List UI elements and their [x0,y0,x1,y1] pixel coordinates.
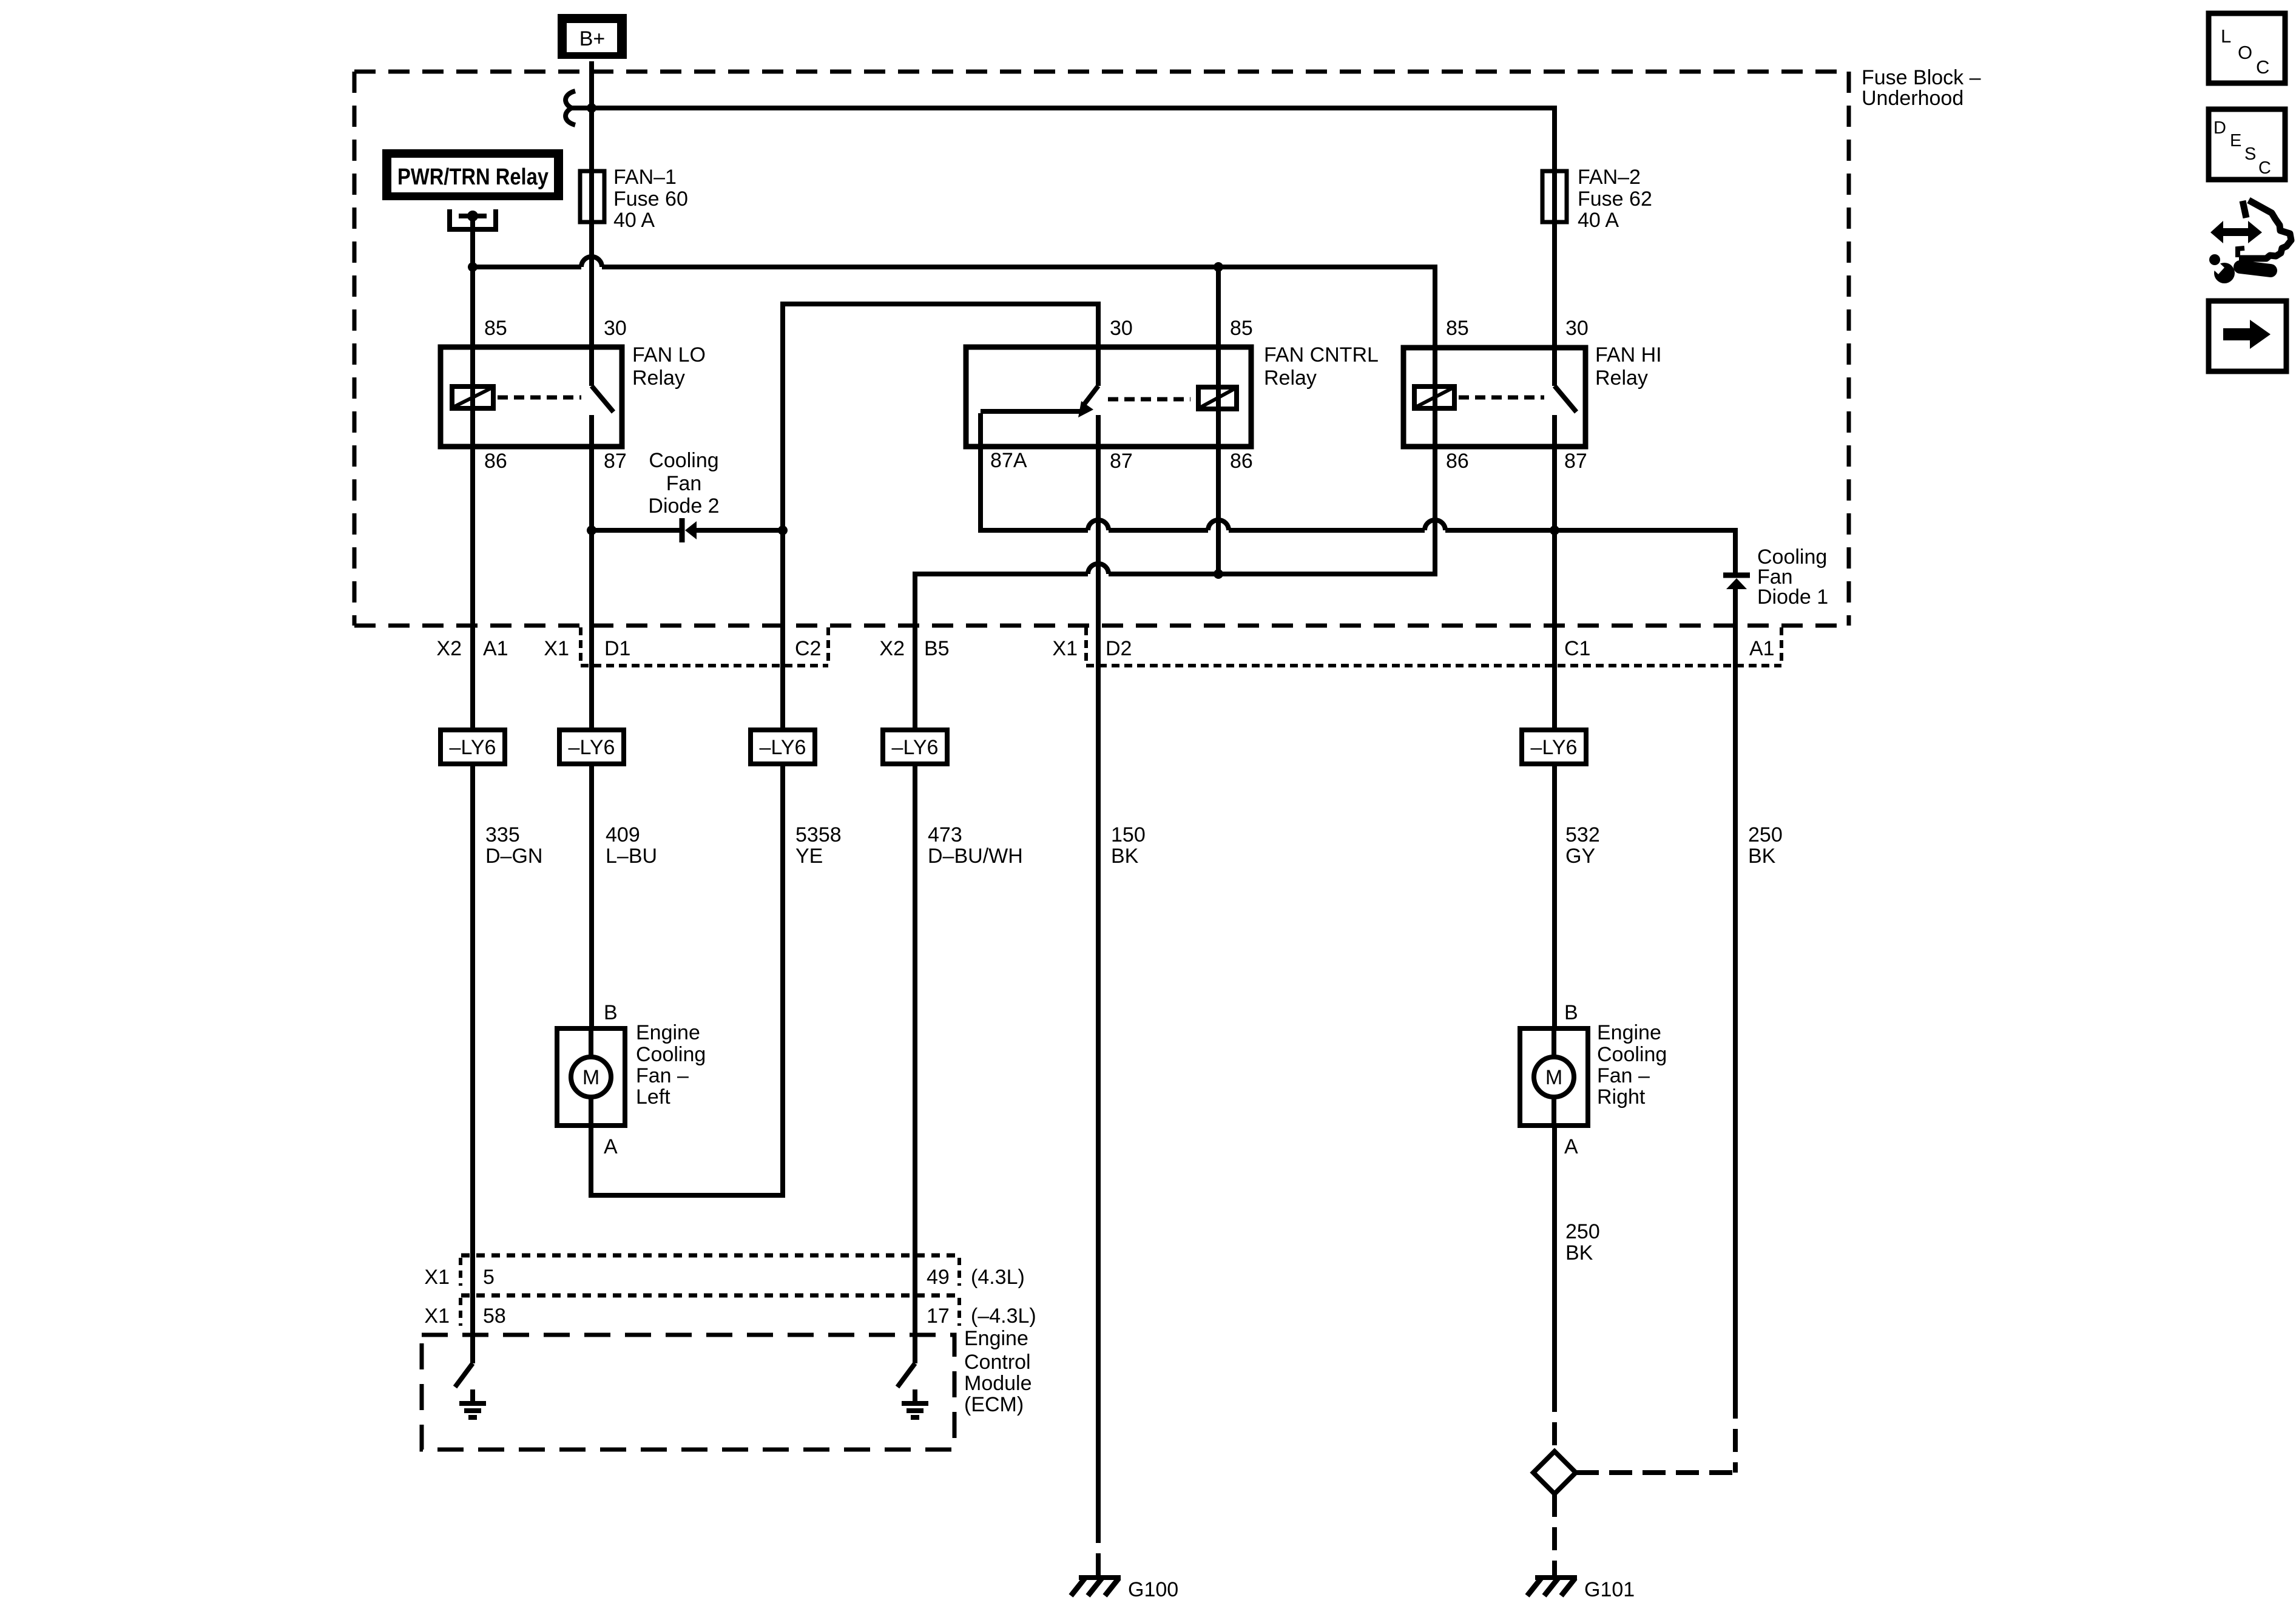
svg-text:FAN CNTRL: FAN CNTRL [1264,343,1379,366]
wire hop over FAN-1 wire [581,257,602,267]
svg-text:Fan: Fan [666,472,702,495]
wire dashed 250 BK to splice diamond [1552,1389,1557,1451]
svg-text:D2: D2 [1106,637,1132,660]
svg-text:(4.3L): (4.3L) [971,1266,1025,1289]
ground symbol in ECM left [459,1403,486,1417]
ground symbol in ECM right [902,1403,928,1417]
svg-text:D1: D1 [604,637,630,660]
ECM connector separator row1 right [957,1258,961,1286]
relay switch arm FAN HI (30-87) [1555,386,1576,447]
ECM connector row X1 pins 5/49 dashed line [461,1254,956,1258]
ground G100 symbol [1071,1578,1121,1596]
svg-text:Engine: Engine [1597,1021,1661,1044]
svg-text:X1: X1 [424,1266,450,1289]
svg-text:Relay: Relay [1595,366,1648,390]
svg-text:58: 58 [483,1305,506,1328]
svg-text:D: D [2213,118,2226,138]
svg-text:5358: 5358 [795,823,842,846]
svg-text:Left: Left [636,1085,670,1109]
fuse block underhood top border [354,70,1849,74]
svg-text:Control: Control [964,1351,1031,1374]
svg-text:A1: A1 [1749,637,1775,660]
wire dashed 250 BK to splice diamond [1576,1470,1735,1475]
splice diamond connector on 250 BK [1533,1451,1576,1494]
motor engine cooling fan - right [1520,1028,1588,1126]
svg-text:G101: G101 [1584,1578,1635,1601]
relay box FAN HI Relay [1403,348,1585,447]
wire right fan motor pin A down (circuit 250 BK) [1552,1126,1557,1389]
option code box -LY6 on circuit 5358 [751,730,815,764]
junction node 5358 wire / diode 2 [778,525,788,535]
junction node coil feed FAN CNTRL 85 [1214,262,1223,272]
wire stub hook (feed continues symbol) at left end of B+ bus [566,91,575,125]
svg-text:D–BU/WH: D–BU/WH [928,845,1023,868]
junction node FAN CNTRL 86 / coil control bus [1214,569,1223,579]
relay box FAN CNTRL Relay [966,347,1251,447]
svg-text:–LY6: –LY6 [892,736,939,759]
svg-text:Right: Right [1597,1085,1646,1109]
svg-text:30: 30 [1565,317,1589,340]
svg-text:L: L [2221,25,2231,47]
relay switch arm FAN LO (30-87) [592,386,613,447]
svg-text:Relay: Relay [1264,366,1317,390]
svg-text:532: 532 [1565,823,1600,846]
svg-text:X2: X2 [436,637,462,660]
option code box -LY6 on circuit 473 [883,730,947,764]
PWR/TRN relay output contact symbol [450,209,496,229]
wire dashed to ground G100 [1096,1520,1101,1580]
wire PWR/TRN relay output down through FAN LO coil 85-86 to ECM pin 5/58 (circuit 335) [470,216,475,1363]
relay actuating dashed link FAN CNTRL [1108,397,1190,402]
svg-text:A1: A1 [483,637,508,660]
fuse FAN-2 Fuse 62 40 A [1542,171,1567,222]
svg-text:Engine: Engine [964,1327,1028,1350]
svg-text:409: 409 [606,823,640,846]
svg-text:87: 87 [1564,450,1587,473]
svg-text:30: 30 [604,317,627,340]
wire B+ bus to FAN-2 fuse and down to FAN HI 30 [568,108,1555,386]
cooling fan diode 2 symbol (cathode bar and arrow pointing left) [682,518,697,542]
svg-text:B: B [1564,1001,1578,1024]
wire FAN CNTRL pin 87 down to ground G100 (circuit 150 BK) [1096,415,1101,1520]
ECM connector separator row2 left [459,1298,462,1326]
svg-text:BK: BK [1748,845,1776,868]
ground G101 symbol [1527,1578,1577,1596]
connector dashed separator X1 left of D2 [1084,627,1088,666]
svg-text:–LY6: –LY6 [569,736,615,759]
wire hop over FAN CNTRL 87 wire [1088,520,1109,530]
svg-text:FAN–1: FAN–1 [613,166,677,189]
svg-text:–LY6: –LY6 [760,736,806,759]
svg-text:A: A [604,1135,618,1158]
junction node PWR/TRN output [468,262,478,272]
relay actuating dashed link FAN HI [1459,396,1544,400]
connector dashed box bottom D1-C2 [581,664,828,667]
svg-text:250: 250 [1565,1220,1600,1243]
ECM connector separator row1 left [459,1258,462,1286]
svg-text:Fan –: Fan – [636,1064,689,1087]
svg-text:G100: G100 [1128,1578,1178,1601]
wire hop over FAN CNTRL 86 wire [1208,520,1229,530]
svg-text:FAN–2: FAN–2 [1578,166,1641,189]
svg-text:17: 17 [927,1305,950,1328]
svg-text:Underhood: Underhood [1862,87,1963,110]
wire 87A bus segment 2 [1109,528,1208,533]
svg-text:S: S [2244,144,2256,164]
svg-text:Cooling: Cooling [636,1043,706,1066]
svg-text:87: 87 [604,450,627,473]
svg-text:GY: GY [1565,845,1595,868]
wire diode 2 bus right segment [695,528,783,533]
svg-text:Diode 1: Diode 1 [1757,586,1828,609]
svg-text:Fuse Block –: Fuse Block – [1862,66,1981,89]
svg-text:473: 473 [928,823,962,846]
svg-text:(ECM): (ECM) [964,1393,1024,1416]
option code box -LY6 on circuit 335 [441,730,505,764]
svg-text:85: 85 [484,317,507,340]
svg-text:Fuse 60: Fuse 60 [613,187,688,211]
junction node B+ bus / FAN-1 fuse feed [587,103,596,113]
svg-text:M: M [582,1066,599,1089]
icon wrench [2207,254,2271,283]
connector dashed separator X1 left of D1 [579,627,582,666]
relay switch arm FAN CNTRL (30-87A normally closed) [981,386,1098,447]
fuse FAN-1 Fuse 60 40 A [580,171,604,222]
svg-text:X1: X1 [544,637,569,660]
wire FAN CNTRL relay pin 85 down through coil to pin 86 and node [1216,267,1221,574]
wire dashed to ground G101 [1552,1494,1557,1580]
wire PWR/TRN feed to relay coils, left part [473,265,581,269]
svg-text:M: M [1545,1066,1562,1089]
svg-text:C: C [2258,158,2271,178]
svg-text:X1: X1 [424,1305,450,1328]
svg-text:87: 87 [1110,450,1133,473]
svg-text:X2: X2 [879,637,905,660]
svg-text:PWR/TRN Relay: PWR/TRN Relay [397,164,549,190]
fuse block underhood left border [353,72,357,626]
wire 87A bus segment 4 to cooling fan diode 1 [1445,530,1735,573]
svg-text:BK: BK [1565,1241,1593,1264]
junction node FAN LO 87 / diode 2 [587,525,596,535]
wire dashed 250 BK down from A1 [1733,1396,1738,1473]
icon box DESC [2209,109,2285,180]
wire hop over FAN HI 86 wire [1425,520,1445,530]
fuse block underhood right border [1847,72,1851,626]
wire 87A bus segment 3 [1229,528,1425,533]
svg-text:Fuse 62: Fuse 62 [1578,187,1652,211]
svg-text:87A: 87A [990,449,1027,472]
svg-text:A: A [1564,1135,1578,1158]
svg-text:85: 85 [1446,317,1469,340]
wire 5358 YE: FAN CNTRL pin 30 feed over and down to left fan motor pin A [591,304,1098,1195]
power feed symbol B+ [558,14,627,59]
wire 87A bus from FAN CNTRL down and right [981,413,1088,530]
svg-text:Cooling: Cooling [649,449,718,472]
svg-text:Cooling: Cooling [1597,1043,1667,1066]
svg-text:49: 49 [927,1266,950,1289]
relay coil FAN HI (85-86) [1414,387,1454,408]
component label box PWR/TRN Relay [382,149,563,200]
switch low side driver in ECM pin 49/17 [897,1363,915,1403]
cooling fan diode 1 symbol (cathode bar, arrow pointing up) [1723,575,1750,589]
svg-text:B+: B+ [579,27,606,50]
svg-text:40 A: 40 A [613,209,655,232]
icon box LOC [2209,13,2285,83]
svg-text:86: 86 [484,450,507,473]
ECM connector separator row2 right [957,1298,961,1326]
svg-text:YE: YE [795,845,823,868]
svg-text:C2: C2 [795,637,821,660]
option code box -LY6 on circuit 409 [559,730,624,764]
icon forward arrow [2223,320,2271,349]
svg-text:250: 250 [1748,823,1783,846]
option code box -LY6 on circuit 532 [1522,730,1586,764]
wire PWR/TRN feed right segment, down through FAN HI coil 85-86 to coil control bus [602,267,1435,574]
svg-text:–LY6: –LY6 [450,736,496,759]
junction node FAN HI 87 / 87A bus [1550,525,1559,535]
svg-text:BK: BK [1111,845,1139,868]
svg-text:C1: C1 [1564,637,1590,660]
relay box FAN LO Relay [441,347,622,447]
svg-text:Fan –: Fan – [1597,1064,1650,1087]
svg-text:E: E [2230,131,2241,150]
svg-text:C: C [2256,56,2269,78]
wire FAN LO relay pin 87 down to left fan motor pin B (circuit 409) [589,415,594,1028]
relay coil FAN CNTRL (85-86) [1198,387,1237,409]
wire coil control bus left segment down to ECM pin 49/17 [915,574,1088,1363]
svg-text:FAN LO: FAN LO [632,343,706,366]
connector dashed box bottom D2-C1-A1 [1086,664,1781,667]
svg-text:150: 150 [1111,823,1146,846]
svg-text:86: 86 [1230,450,1253,473]
switch low side driver in ECM pin 5/58 [455,1363,473,1403]
fuse block underhood bottom border / connector row [354,624,1849,628]
svg-text:(–4.3L): (–4.3L) [971,1305,1036,1328]
ECM connector row X1 pins 58/17 dashed line [461,1294,956,1298]
svg-text:Relay: Relay [632,366,685,390]
module box Engine Control Module ECM [422,1335,954,1450]
svg-text:D–GN: D–GN [485,845,542,868]
connector dashed separator right of C2 [826,627,830,666]
svg-text:Diode 2: Diode 2 [648,495,719,518]
svg-text:335: 335 [485,823,520,846]
svg-text:–LY6: –LY6 [1531,736,1578,759]
wire B+ feed down through FAN-1 fuse to FAN LO relay pin 30 [589,61,594,386]
relay coil FAN LO (85-86) [452,387,493,408]
svg-text:85: 85 [1230,317,1253,340]
relay actuating dashed link FAN LO [498,396,581,400]
svg-text:X1: X1 [1052,637,1078,660]
svg-text:40 A: 40 A [1578,209,1619,232]
svg-text:Module: Module [964,1372,1032,1395]
svg-text:5: 5 [483,1266,495,1289]
svg-text:Engine: Engine [636,1021,700,1044]
svg-text:30: 30 [1110,317,1133,340]
icon box forward arrow [2209,301,2286,371]
wire diode 2 bus left segment [592,528,680,533]
wire FAN HI relay pin 87 down to right fan motor pin B (circuit 532 GY) [1552,415,1557,1028]
motor engine cooling fan - left [557,1028,625,1126]
svg-text:86: 86 [1446,450,1469,473]
icon hand with double arrow (adjust/repair) [2210,200,2291,258]
svg-text:L–BU: L–BU [606,845,657,868]
svg-text:FAN HI: FAN HI [1595,343,1662,366]
svg-text:B5: B5 [924,637,950,660]
wire 250 BK from diode 1 down through A1 [1733,587,1738,1396]
wire hop over FAN CNTRL 87 wire [1088,564,1109,574]
svg-text:B: B [604,1001,618,1024]
svg-text:O: O [2238,42,2252,63]
connector dashed separator right of A1 [1780,627,1783,666]
